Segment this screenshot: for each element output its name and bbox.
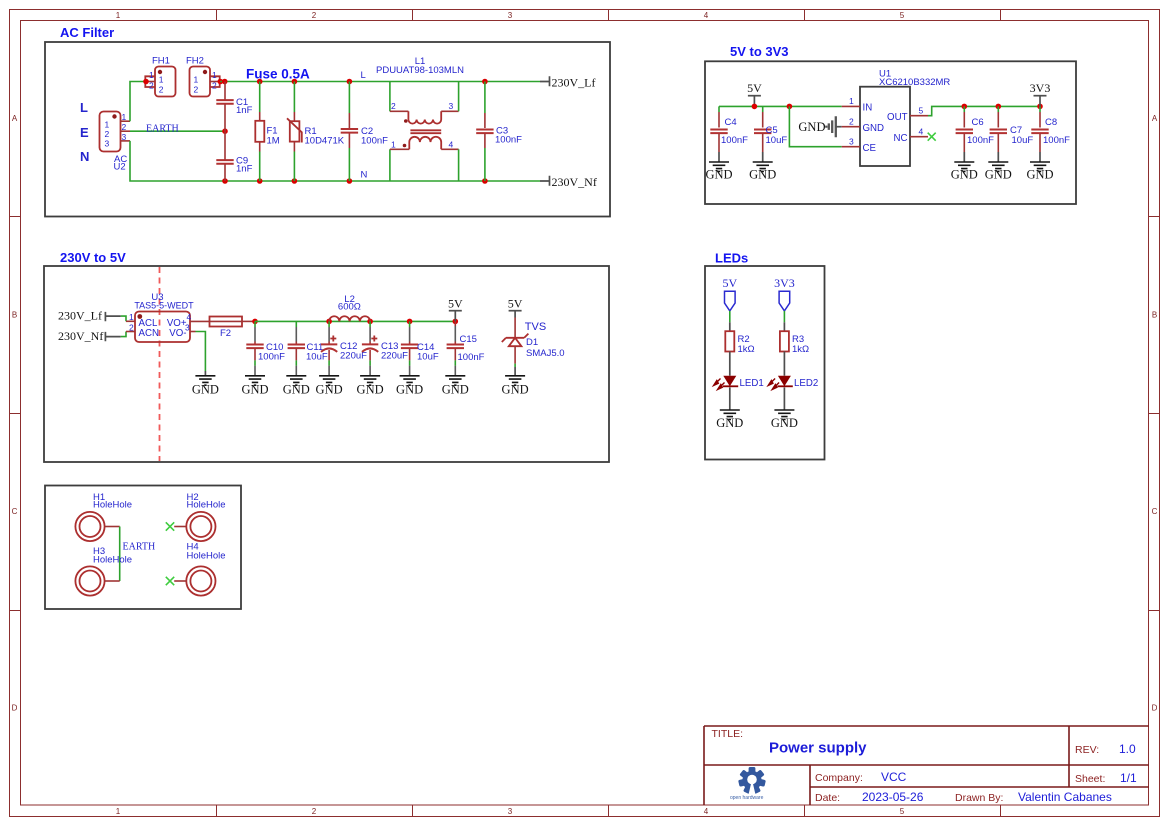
svg-text:TVS: TVS bbox=[525, 321, 546, 333]
power symbol 3V3 bbox=[1030, 81, 1051, 106]
wire R2 to LED1 bbox=[729, 352, 731, 376]
converter U3 labels bbox=[134, 292, 194, 311]
svg-text:GND: GND bbox=[951, 168, 978, 182]
svg-text:N: N bbox=[80, 149, 89, 164]
svg-text:1: 1 bbox=[116, 11, 121, 20]
transformer L1 primary winding bbox=[404, 111, 441, 123]
LED LED2 bbox=[768, 376, 818, 390]
wire 230V_Nf to U3 pin 2 bbox=[121, 332, 126, 337]
svg-text:VCC: VCC bbox=[881, 770, 907, 784]
wire OUT to 3V3 rail bbox=[928, 106, 1040, 115]
fuse holder FH1 bbox=[145, 56, 175, 97]
svg-text:C: C bbox=[12, 507, 18, 516]
svg-text:GND: GND bbox=[241, 383, 268, 397]
svg-text:LED2: LED2 bbox=[794, 378, 818, 389]
wire LED2 to ground bbox=[783, 387, 785, 410]
svg-text:5V: 5V bbox=[508, 297, 523, 311]
svg-text:2: 2 bbox=[212, 81, 217, 91]
svg-text:C15: C15 bbox=[460, 334, 477, 345]
transformer L1 pin 2 bbox=[390, 101, 409, 111]
svg-text:GND: GND bbox=[716, 416, 743, 430]
open hardware logo gear bbox=[738, 767, 766, 794]
ground symbol C12 bbox=[316, 376, 343, 397]
ground symbol C10 bbox=[241, 376, 268, 397]
svg-text:Drawn By:: Drawn By: bbox=[955, 792, 1003, 804]
global label 5V bbox=[722, 276, 737, 311]
svg-text:1kΩ: 1kΩ bbox=[738, 344, 755, 355]
wire R3 to LED2 bbox=[783, 352, 785, 376]
svg-text:1: 1 bbox=[391, 140, 396, 150]
regulator U1 pin 5 OUT bbox=[887, 106, 928, 124]
fuse holder FH1 pin 2 stub bbox=[143, 79, 155, 85]
svg-text:4: 4 bbox=[449, 140, 454, 150]
svg-text:C6: C6 bbox=[972, 117, 984, 128]
svg-text:3: 3 bbox=[508, 807, 513, 816]
svg-text:2: 2 bbox=[159, 85, 164, 95]
svg-text:A: A bbox=[1152, 114, 1158, 123]
mounting hole H3 bbox=[75, 546, 132, 596]
svg-text:L: L bbox=[361, 70, 366, 81]
polarized capacitor C13 bbox=[362, 321, 408, 375]
ground symbol C13 bbox=[357, 376, 384, 397]
svg-text:Valentin Cabanes: Valentin Cabanes bbox=[1018, 790, 1112, 804]
ground symbol VO- bbox=[192, 371, 219, 397]
regulator U1 body bbox=[860, 87, 910, 166]
converter U3 pin 2 ACN bbox=[126, 322, 159, 339]
junction dots N rail bbox=[222, 178, 488, 184]
converter U3 pin 1 ACL bbox=[126, 312, 158, 329]
svg-text:GND: GND bbox=[442, 383, 469, 397]
ground symbol D1 bbox=[502, 376, 529, 397]
svg-text:GND: GND bbox=[985, 168, 1012, 182]
svg-text:1: 1 bbox=[149, 70, 154, 80]
svg-text:B: B bbox=[12, 311, 17, 320]
frame ruler letters left bbox=[12, 114, 18, 713]
svg-text:100nF: 100nF bbox=[1043, 135, 1070, 146]
svg-text:230V to 5V: 230V to 5V bbox=[60, 250, 126, 265]
svg-text:open hardware: open hardware bbox=[730, 795, 764, 801]
svg-text:4: 4 bbox=[704, 807, 709, 816]
junction dot C10 bbox=[252, 319, 258, 325]
capacitor C9 bbox=[216, 131, 252, 181]
no-connect X H2 bbox=[166, 522, 174, 530]
capacitor C6 bbox=[956, 106, 995, 162]
junction dot C12 bbox=[326, 319, 332, 325]
ground symbol C7 bbox=[985, 162, 1012, 182]
svg-text:Power supply: Power supply bbox=[769, 740, 867, 757]
ground symbol C14 bbox=[396, 376, 423, 397]
wire VO- to ground bbox=[196, 332, 206, 372]
svg-text:230V_Lf: 230V_Lf bbox=[58, 309, 102, 323]
svg-text:1nF: 1nF bbox=[236, 164, 253, 175]
connector U2 body bbox=[100, 112, 121, 152]
svg-text:E: E bbox=[80, 125, 89, 140]
svg-text:3: 3 bbox=[449, 101, 454, 111]
svg-text:U2: U2 bbox=[114, 162, 126, 173]
svg-text:C4: C4 bbox=[725, 117, 737, 128]
svg-text:GND: GND bbox=[316, 383, 343, 397]
capacitor C14 bbox=[401, 321, 439, 375]
svg-text:100nF: 100nF bbox=[721, 135, 748, 146]
svg-text:F2: F2 bbox=[220, 328, 231, 339]
svg-text:GND: GND bbox=[863, 123, 885, 134]
svg-text:L: L bbox=[80, 100, 88, 115]
capacitor C4 bbox=[710, 106, 748, 162]
resistor F1 bbox=[255, 82, 279, 182]
svg-text:5: 5 bbox=[900, 807, 905, 816]
ground symbol C15 bbox=[442, 376, 469, 397]
svg-text:GND: GND bbox=[749, 168, 776, 182]
svg-text:3: 3 bbox=[105, 139, 110, 149]
converter U3 body bbox=[135, 312, 190, 343]
fuse holder FH1 pin numbers bbox=[149, 70, 164, 95]
section box AC Filter bbox=[45, 42, 610, 217]
regulator U1 pin 1 IN bbox=[842, 96, 872, 114]
wire F2 to rail bbox=[242, 320, 255, 322]
svg-text:HoleHole: HoleHole bbox=[93, 555, 132, 566]
junction dot C14 bbox=[407, 319, 413, 325]
section box LEDs bbox=[705, 266, 825, 460]
svg-text:B: B bbox=[1152, 311, 1157, 320]
svg-text:Fuse 0.5A: Fuse 0.5A bbox=[246, 67, 310, 82]
polarized capacitor C12 bbox=[321, 321, 367, 375]
fuse holder FH2 bbox=[186, 56, 220, 97]
svg-text:5V to 3V3: 5V to 3V3 bbox=[730, 44, 789, 59]
svg-text:10uF: 10uF bbox=[1012, 135, 1034, 146]
title block outline bbox=[704, 726, 1149, 805]
fuse F2 bbox=[210, 317, 243, 340]
svg-text:5V: 5V bbox=[448, 297, 463, 311]
power symbol 5V above D1 bbox=[508, 297, 523, 318]
isolation barrier dashed line bbox=[159, 267, 161, 461]
junction dots L rail bbox=[222, 79, 488, 85]
wire U2 pin1 up to L rail bbox=[130, 82, 145, 122]
wire L1 pin4 down to rail bbox=[458, 149, 460, 181]
transformer L1 core bbox=[410, 130, 441, 133]
svg-text:NC: NC bbox=[894, 133, 908, 144]
svg-text:3: 3 bbox=[122, 132, 127, 142]
svg-text:10uF: 10uF bbox=[766, 135, 788, 146]
svg-text:3: 3 bbox=[508, 11, 513, 20]
junction dot C15 bbox=[453, 319, 459, 325]
svg-text:1: 1 bbox=[105, 120, 110, 130]
svg-text:EARTH: EARTH bbox=[123, 542, 156, 553]
svg-text:GND: GND bbox=[396, 383, 423, 397]
svg-text:GND: GND bbox=[1026, 168, 1053, 182]
svg-text:3V3: 3V3 bbox=[1030, 81, 1051, 95]
svg-text:1: 1 bbox=[194, 75, 199, 85]
svg-text:1: 1 bbox=[129, 312, 134, 322]
transformer L1 labels bbox=[376, 56, 464, 76]
varistor R1 bbox=[287, 82, 345, 182]
svg-text:4: 4 bbox=[704, 11, 709, 20]
svg-text:1M: 1M bbox=[267, 136, 280, 147]
svg-text:GND: GND bbox=[192, 383, 219, 397]
svg-text:220uF: 220uF bbox=[381, 351, 408, 362]
svg-text:HoleHole: HoleHole bbox=[93, 500, 132, 511]
section box 5V to 3V3 bbox=[705, 61, 1076, 204]
svg-text:GND: GND bbox=[283, 383, 310, 397]
svg-text:1: 1 bbox=[849, 96, 854, 106]
section box 230V to 5V bbox=[44, 266, 609, 462]
svg-text:D1: D1 bbox=[526, 337, 538, 348]
fuse holder FH2 pin numbers bbox=[194, 70, 218, 95]
svg-text:4: 4 bbox=[187, 312, 192, 322]
connector U2 L E N labels bbox=[80, 100, 89, 164]
connector U2 pin 1 bbox=[105, 112, 131, 130]
svg-text:GND: GND bbox=[771, 416, 798, 430]
resistor R2 bbox=[725, 331, 754, 355]
net label 230V_Nf bbox=[540, 175, 597, 189]
junction dot C7 bbox=[996, 104, 1002, 110]
capacitor C11 bbox=[288, 321, 328, 375]
svg-text:10uF: 10uF bbox=[417, 352, 439, 363]
net label 230V_Lf bbox=[540, 76, 596, 90]
svg-text:100nF: 100nF bbox=[458, 352, 485, 363]
svg-text:D: D bbox=[1152, 704, 1158, 713]
no-connect X H4 bbox=[166, 577, 174, 585]
svg-text:A: A bbox=[12, 114, 18, 123]
wire EARTH net bbox=[130, 130, 225, 132]
frame ruler letters right bbox=[1152, 114, 1158, 713]
junction dot CE branch bbox=[787, 104, 793, 110]
svg-text:EARTH: EARTH bbox=[146, 124, 179, 135]
junction dot C6 bbox=[962, 104, 968, 110]
regulator U1 pin 2 GND bbox=[842, 116, 884, 134]
svg-text:LEDs: LEDs bbox=[715, 251, 748, 266]
mounting hole H3 pin bbox=[105, 580, 120, 582]
svg-text:1: 1 bbox=[116, 807, 121, 816]
inductor L2 bbox=[329, 294, 370, 321]
wire 230V_Lf to U3 pin 1 bbox=[121, 316, 126, 321]
transformer L1 secondary winding bbox=[403, 137, 442, 150]
mounting hole H2 pin bbox=[174, 526, 186, 528]
ground symbol C4 bbox=[705, 162, 732, 182]
junction dot 5V rail bbox=[752, 104, 758, 110]
frame ruler ticks left bbox=[10, 217, 21, 611]
svg-text:FH2: FH2 bbox=[186, 56, 204, 67]
svg-text:C: C bbox=[1152, 507, 1158, 516]
svg-text:N: N bbox=[361, 170, 368, 181]
transformer L1 pin 4 bbox=[441, 140, 458, 150]
ground symbol C11 bbox=[283, 376, 310, 397]
frame ruler numbers top bbox=[116, 11, 905, 20]
svg-text:GND: GND bbox=[705, 168, 732, 182]
svg-text:C8: C8 bbox=[1045, 117, 1057, 128]
mounting hole H2 bbox=[186, 492, 225, 541]
svg-text:2: 2 bbox=[122, 122, 127, 132]
svg-text:1: 1 bbox=[122, 112, 127, 122]
capacitor C10 bbox=[246, 321, 285, 375]
svg-text:1: 1 bbox=[212, 70, 217, 80]
svg-text:100nF: 100nF bbox=[967, 135, 994, 146]
svg-text:2023-05-26: 2023-05-26 bbox=[862, 790, 924, 804]
ground symbol LED2 bbox=[771, 410, 798, 430]
svg-text:230V_Lf: 230V_Lf bbox=[552, 76, 596, 90]
svg-text:TITLE:: TITLE: bbox=[712, 728, 744, 740]
svg-text:PDUUAT98-103MLN: PDUUAT98-103MLN bbox=[376, 65, 464, 76]
svg-text:HoleHole: HoleHole bbox=[187, 500, 226, 511]
no-connect X on pin 4 bbox=[928, 133, 936, 141]
ground symbol U1 GND pin bbox=[798, 116, 841, 137]
wire N rail to L1 pin 1 bbox=[389, 149, 391, 181]
TVS diode D1 bbox=[502, 318, 565, 376]
regulator U1 labels bbox=[879, 69, 950, 89]
transformer L1 pin 3 bbox=[441, 101, 458, 111]
frame ruler ticks top bbox=[217, 10, 1001, 21]
svg-text:D: D bbox=[12, 704, 18, 713]
wire 5V rail left bbox=[719, 105, 842, 107]
ground symbol LED1 bbox=[716, 410, 743, 430]
svg-text:2: 2 bbox=[312, 807, 317, 816]
resistor R3 bbox=[780, 331, 809, 355]
converter U3 pin 4 VO+ bbox=[167, 312, 210, 329]
wire LED1 to ground bbox=[729, 387, 731, 410]
wire 5V rail bbox=[255, 320, 455, 322]
svg-text:5V: 5V bbox=[722, 276, 737, 290]
capacitor C5 bbox=[754, 106, 787, 162]
ground symbol C8 bbox=[1026, 162, 1053, 182]
net label 230V_Nf input bbox=[58, 329, 121, 343]
svg-text:GND: GND bbox=[502, 383, 529, 397]
svg-text:SMAJ5.0: SMAJ5.0 bbox=[526, 348, 565, 359]
power symbol 5V above C15 bbox=[448, 297, 463, 322]
regulator U1 pin 4 NC bbox=[894, 126, 929, 144]
capacitor C2 bbox=[341, 82, 388, 182]
svg-text:230V_Nf: 230V_Nf bbox=[58, 329, 103, 343]
capacitor C8 bbox=[1031, 106, 1070, 162]
wire CE branch bbox=[789, 106, 841, 146]
svg-text:4: 4 bbox=[919, 126, 924, 136]
svg-text:GND: GND bbox=[357, 383, 384, 397]
svg-text:1: 1 bbox=[159, 75, 164, 85]
mounting hole H4 bbox=[186, 542, 225, 596]
connector U2 AC U2 labels bbox=[114, 154, 128, 173]
svg-text:100nF: 100nF bbox=[258, 352, 285, 363]
LED LED1 bbox=[714, 376, 764, 390]
svg-text:1kΩ: 1kΩ bbox=[792, 344, 809, 355]
svg-text:2: 2 bbox=[105, 129, 110, 139]
svg-text:Company:: Company: bbox=[815, 772, 863, 784]
wire 5V to R2 bbox=[729, 311, 731, 331]
section box mounting holes bbox=[45, 486, 241, 610]
ground symbol C6 bbox=[951, 162, 978, 182]
svg-text:2: 2 bbox=[149, 81, 154, 91]
svg-text:CE: CE bbox=[863, 143, 877, 154]
svg-text:3V3: 3V3 bbox=[774, 276, 795, 290]
svg-text:HoleHole: HoleHole bbox=[187, 551, 226, 562]
frame ruler ticks bottom bbox=[217, 805, 1001, 817]
svg-text:IN: IN bbox=[863, 103, 873, 114]
svg-text:2: 2 bbox=[391, 101, 396, 111]
svg-text:ACN: ACN bbox=[139, 328, 159, 339]
svg-text:FH1: FH1 bbox=[152, 56, 170, 67]
svg-text:OUT: OUT bbox=[887, 112, 908, 123]
wire L rail to L1 pin 2 bbox=[389, 82, 391, 112]
svg-text:2: 2 bbox=[194, 85, 199, 95]
svg-text:5: 5 bbox=[919, 106, 924, 116]
frame ruler numbers bottom bbox=[116, 807, 905, 816]
converter U3 pin 3 VO- bbox=[169, 322, 195, 339]
connector U2 pin 3 bbox=[105, 132, 131, 149]
capacitor C3 bbox=[476, 82, 522, 182]
svg-text:Sheet:: Sheet: bbox=[1075, 773, 1105, 785]
svg-text:5: 5 bbox=[900, 11, 905, 20]
svg-text:1nF: 1nF bbox=[236, 105, 253, 116]
fuse holder FH2 pin 2 stub bbox=[210, 79, 223, 85]
svg-text:3: 3 bbox=[849, 136, 854, 146]
junction dot EARTH bbox=[222, 128, 228, 134]
power symbol 5V bbox=[747, 81, 762, 106]
mounting hole H1 pin bbox=[105, 526, 120, 528]
wire 3V3 to R3 bbox=[783, 311, 785, 331]
svg-text:AC Filter: AC Filter bbox=[60, 25, 114, 40]
svg-text:2: 2 bbox=[849, 116, 854, 126]
svg-text:100nF: 100nF bbox=[495, 135, 522, 146]
connector U2 pin 2 bbox=[105, 122, 131, 139]
svg-text:10uF: 10uF bbox=[306, 352, 328, 363]
svg-text:2: 2 bbox=[312, 11, 317, 20]
frame ruler ticks right bbox=[1149, 217, 1160, 611]
svg-text:LED1: LED1 bbox=[740, 378, 764, 389]
junction dot 3V3 bbox=[1037, 104, 1043, 110]
capacitor C1 bbox=[216, 82, 252, 132]
svg-text:1/1: 1/1 bbox=[1120, 771, 1137, 785]
svg-text:5V: 5V bbox=[747, 81, 762, 95]
wire N rail bottom bbox=[130, 141, 540, 181]
svg-text:1.0: 1.0 bbox=[1119, 742, 1136, 756]
svg-text:GND: GND bbox=[798, 120, 825, 134]
svg-text:VO-: VO- bbox=[169, 328, 186, 339]
capacitor C7 bbox=[990, 106, 1034, 162]
wire EARTH H1 to H3 bbox=[119, 527, 121, 582]
wire L rail top bbox=[220, 81, 540, 83]
global label 3V3 bbox=[774, 276, 795, 311]
mounting hole H4 pin bbox=[174, 580, 186, 582]
junction dot C13 bbox=[367, 319, 373, 325]
capacitor C15 bbox=[447, 321, 485, 375]
svg-text:100nF: 100nF bbox=[361, 136, 388, 147]
net label 230V_Lf input bbox=[58, 309, 121, 323]
svg-text:10D471K: 10D471K bbox=[305, 136, 345, 147]
transformer L1 pin 1 bbox=[390, 140, 409, 150]
svg-text:TAS5-5-WEDT: TAS5-5-WEDT bbox=[134, 301, 194, 311]
svg-text:XC6210B332MR: XC6210B332MR bbox=[879, 77, 950, 88]
regulator U1 pin 3 CE bbox=[842, 136, 877, 154]
svg-text:REV:: REV: bbox=[1075, 744, 1099, 756]
svg-text:600Ω: 600Ω bbox=[338, 302, 361, 313]
wire L1 pin3 up to rail bbox=[458, 82, 460, 112]
svg-text:Date:: Date: bbox=[815, 792, 840, 804]
svg-text:230V_Nf: 230V_Nf bbox=[552, 175, 597, 189]
svg-text:2: 2 bbox=[129, 322, 134, 332]
mounting hole H1 bbox=[75, 492, 132, 541]
ground symbol C5 bbox=[749, 162, 776, 182]
